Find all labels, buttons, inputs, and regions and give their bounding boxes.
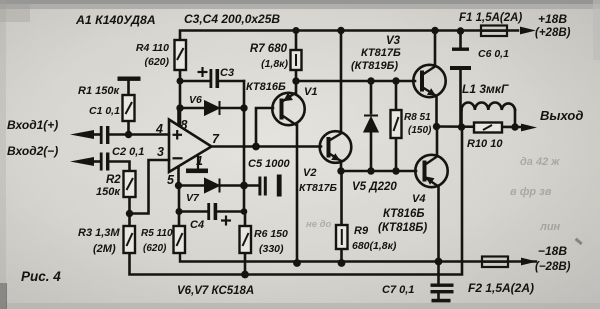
- svg-text:R6 150: R6 150: [254, 228, 288, 240]
- svg-text:(КТ819Б): (КТ819Б): [351, 60, 398, 72]
- svg-text:(+28В): (+28В): [535, 27, 571, 39]
- svg-text:С1 0,1: С1 0,1: [89, 105, 120, 117]
- svg-text:(330): (330): [259, 243, 284, 255]
- svg-text:7: 7: [212, 132, 220, 146]
- svg-text:3: 3: [157, 145, 164, 159]
- svg-text:L1 3мкГ: L1 3мкГ: [462, 82, 509, 96]
- svg-text:КТ817Б: КТ817Б: [361, 47, 401, 59]
- svg-text:С5 1000: С5 1000: [248, 158, 290, 170]
- svg-text:V4: V4: [412, 193, 425, 205]
- svg-text:не до: не до: [306, 219, 332, 230]
- svg-text:V1: V1: [304, 86, 317, 98]
- svg-text:F1 1,5А(2А): F1 1,5А(2А): [459, 12, 522, 24]
- svg-text:150к: 150к: [96, 186, 121, 198]
- svg-text:(150): (150): [408, 125, 432, 136]
- svg-text:R10 10: R10 10: [467, 138, 503, 150]
- svg-text:КТ816Б: КТ816Б: [246, 81, 286, 93]
- svg-text:F2 1,5А(2А): F2 1,5А(2А): [468, 281, 534, 295]
- svg-text:V6: V6: [189, 94, 202, 106]
- svg-text:(620): (620): [144, 56, 169, 68]
- svg-text:Вход2(−): Вход2(−): [7, 144, 58, 158]
- svg-text:КТ816Б: КТ816Б: [383, 208, 425, 220]
- svg-text:4: 4: [155, 122, 163, 136]
- svg-text:+18В: +18В: [538, 12, 567, 26]
- svg-text:V6,V7 КС518А: V6,V7 КС518А: [177, 285, 254, 297]
- svg-text:С3: С3: [220, 67, 234, 79]
- svg-text:в фр зв: в фр зв: [510, 186, 552, 198]
- svg-text:(КТ818Б): (КТ818Б): [378, 222, 427, 234]
- svg-text:R2: R2: [106, 174, 121, 186]
- svg-text:Рис. 4: Рис. 4: [21, 269, 61, 284]
- svg-text:Выход: Выход: [540, 108, 583, 123]
- svg-text:(−28В): (−28В): [535, 261, 571, 273]
- svg-text:да 42 ж: да 42 ж: [520, 156, 560, 168]
- svg-text:Вход1(+): Вход1(+): [7, 118, 58, 132]
- svg-text:С3,С4 200,0х25В: С3,С4 200,0х25В: [184, 12, 280, 26]
- svg-text:R1 150к: R1 150к: [78, 85, 120, 97]
- svg-text:КТ817Б: КТ817Б: [299, 182, 338, 194]
- svg-text:R7 680: R7 680: [250, 43, 288, 55]
- svg-text:V5 Д220: V5 Д220: [352, 181, 397, 193]
- svg-text:R9: R9: [354, 225, 369, 237]
- svg-text:8: 8: [181, 118, 188, 132]
- svg-text:V2: V2: [303, 167, 316, 179]
- svg-text:С7 0,1: С7 0,1: [382, 284, 414, 296]
- svg-text:R4 110: R4 110: [136, 42, 169, 54]
- svg-text:680(1,8к): 680(1,8к): [352, 240, 397, 252]
- svg-text:С4: С4: [190, 219, 204, 231]
- svg-text:лин: лин: [539, 221, 561, 233]
- svg-text:−18В: −18В: [538, 244, 567, 258]
- svg-text:V3: V3: [386, 35, 401, 47]
- svg-text:(2М): (2М): [93, 243, 116, 255]
- svg-text:R3 1,3М: R3 1,3М: [78, 227, 120, 239]
- svg-text:5: 5: [167, 173, 175, 187]
- svg-text:V7: V7: [186, 192, 200, 204]
- svg-text:R5 110: R5 110: [141, 228, 173, 239]
- svg-text:(620): (620): [143, 243, 167, 254]
- svg-text:1: 1: [196, 154, 203, 168]
- svg-text:А1 К140УД8А: А1 К140УД8А: [75, 13, 156, 27]
- svg-text:С6 0,1: С6 0,1: [478, 48, 509, 60]
- svg-text:R8 51: R8 51: [404, 112, 431, 123]
- svg-text:(1,8к): (1,8к): [261, 58, 288, 70]
- svg-text:С2 0,1: С2 0,1: [112, 146, 144, 158]
